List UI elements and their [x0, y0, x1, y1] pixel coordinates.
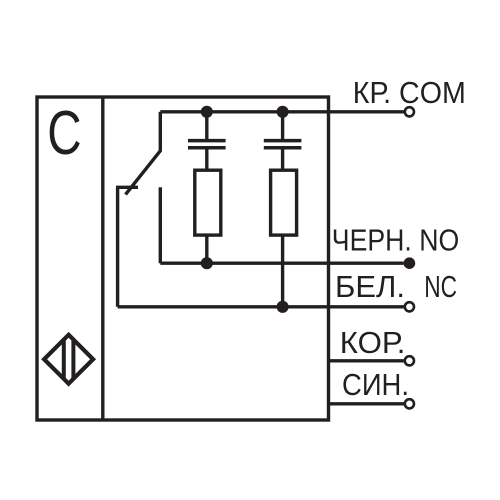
- switch blade: [126, 150, 161, 194]
- wire: top rail to C1: [205, 112, 208, 141]
- terminal blue (open): [405, 399, 414, 408]
- wire: C2 to R2: [281, 148, 284, 171]
- switch common stem: [159, 112, 162, 151]
- svg-text:КОР.: КОР.: [340, 326, 406, 360]
- svg-text:ЧЕРН. NO: ЧЕРН. NO: [332, 224, 459, 258]
- switch S1 (changeover contact): [116, 112, 161, 307]
- svg-text:C: C: [47, 99, 81, 168]
- junction NO rail / R1: [201, 257, 213, 269]
- RC branch 2: [264, 112, 302, 307]
- junction top rail / C2: [277, 106, 289, 118]
- wire: blue lead: [329, 402, 404, 405]
- svg-text:СИН.: СИН.: [342, 368, 409, 402]
- terminal NC (open): [405, 302, 414, 311]
- sensor body outline: [37, 97, 329, 420]
- wire: NO rail: [160, 262, 403, 265]
- terminal brown (open): [405, 356, 414, 365]
- capacitive sensor symbol (diamond): [44, 335, 93, 384]
- switch fixed contact tick: [116, 186, 138, 189]
- svg-text:БЕЛ.: БЕЛ.: [335, 270, 405, 304]
- wire: NC contact down: [116, 187, 119, 306]
- resistor R1: [195, 170, 221, 235]
- resistor R2: [271, 170, 297, 235]
- RC branch 1: [188, 112, 226, 263]
- sensor body divider: [101, 97, 104, 420]
- wire: NC rail: [118, 305, 404, 308]
- wire: C1 to R1: [205, 148, 208, 171]
- svg-text:NC: NC: [424, 270, 457, 304]
- wire: COM top rail: [160, 110, 403, 113]
- capacitor C2: [264, 139, 302, 143]
- junction NC rail / R2: [277, 301, 289, 313]
- capacitor C1: [188, 139, 226, 143]
- terminal NO (filled): [404, 257, 416, 269]
- wire: top rail to C2: [281, 112, 284, 141]
- svg-text:КР. COM: КР. COM: [353, 76, 466, 110]
- junction top rail / C1: [201, 106, 213, 118]
- wire: NO contact down: [159, 187, 162, 263]
- wire: R2 to NC rail: [281, 235, 284, 307]
- wire: brown lead: [329, 359, 404, 362]
- wire: R1 to NO rail: [205, 235, 208, 263]
- terminal COM (open): [405, 107, 414, 116]
